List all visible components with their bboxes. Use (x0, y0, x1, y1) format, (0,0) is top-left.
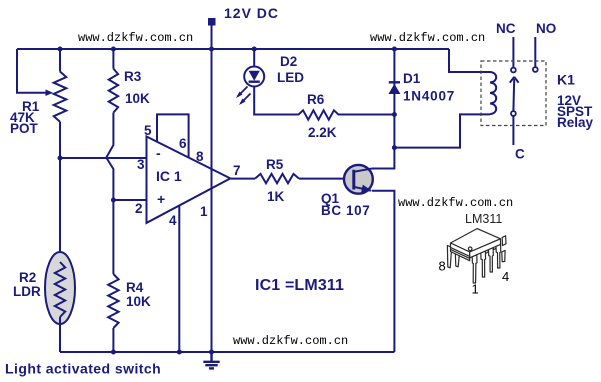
node dot D1-R6 (392, 112, 397, 117)
DIP pin1 index dot (468, 247, 472, 251)
wire pot wiper arrowhead (46, 89, 54, 96)
svg-text:R5: R5 (266, 157, 284, 172)
resistor R6 zigzag (298, 110, 339, 119)
svg-text:5: 5 (144, 123, 152, 138)
wire pot wiper arm (17, 49, 47, 93)
node dot collector-coil (392, 145, 397, 150)
resistor R5 zigzag (255, 174, 299, 183)
op-amp IC1 triangle (147, 137, 231, 223)
wire IC output pin7 (230, 178, 255, 180)
svg-text:R4: R4 (126, 280, 144, 295)
wire coil bottom step to collector node (394, 114, 490, 147)
svg-text:1K: 1K (267, 189, 285, 204)
svg-text:10K: 10K (126, 294, 151, 309)
svg-text:1: 1 (200, 204, 208, 219)
LED D2 circle (244, 67, 264, 87)
DIP left leg pin 8 (447, 246, 451, 268)
resistor R1 zigzag (54, 72, 67, 122)
node dot rail-LED (252, 47, 257, 52)
LDR R2 ellipse (45, 252, 75, 324)
svg-text:LED: LED (277, 70, 304, 85)
transistor Q1 base bar (352, 170, 355, 190)
relay armature arrow line (512, 79, 515, 111)
node dot pin4-rail (177, 350, 182, 355)
svg-text:R3: R3 (124, 69, 142, 84)
DIP package front face (470, 239, 501, 258)
svg-text:2.2K: 2.2K (308, 125, 337, 140)
relay armature pole circle (511, 111, 516, 116)
LED D2 emission arrow 2 (241, 94, 251, 104)
diode D1 triangle (388, 84, 400, 94)
relay NC contact wire (512, 37, 514, 67)
svg-text:R2: R2 (19, 270, 36, 285)
svg-text:www.dzkfw.com.cn: www.dzkfw.com.cn (233, 334, 348, 348)
transistor Q1 collector slant (354, 169, 372, 172)
svg-text:12V DC: 12V DC (224, 5, 279, 21)
wire pin4 to ground rail (178, 206, 180, 352)
node dot rail-R1 (58, 47, 63, 52)
svg-text:IC 1: IC 1 (156, 168, 182, 184)
DIP front leg 3 (489, 247, 494, 272)
wire R2 bottom to bottom rail (59, 317, 61, 352)
node dot R1-R2-pin3 (58, 156, 63, 161)
svg-text:IC1 =LM311: IC1 =LM311 (255, 277, 344, 294)
transistor Q1 emitter slant (354, 187, 371, 191)
DIP package left end face (451, 243, 470, 261)
DIP back right leg lower (502, 250, 505, 261)
relay coil curl dots (490, 81, 494, 105)
svg-text:3: 3 (137, 157, 145, 172)
wire +12V top rail (17, 48, 449, 50)
LED D2 triangle (249, 71, 260, 81)
wire node to R4 (112, 200, 114, 274)
svg-text:R6: R6 (307, 92, 325, 107)
wire R1 top to rail (59, 49, 61, 72)
node dot rail-D1 (392, 47, 397, 52)
node dot ground-rail (209, 350, 214, 355)
DIP package left face seam (451, 247, 470, 258)
svg-text:8: 8 (196, 149, 204, 164)
svg-text:POT: POT (10, 121, 39, 136)
DIP package body top face (451, 229, 501, 252)
resistor R4 zigzag (108, 274, 118, 328)
DIP front leg pin 1 (472, 255, 477, 283)
svg-text:C: C (515, 147, 525, 162)
wire 12V terminal to rail and down through IC to ground (211, 25, 213, 352)
wire Q1 collector to node (372, 148, 394, 169)
node dot rail-12V (209, 47, 214, 52)
node dot R4-rail (111, 350, 116, 355)
svg-text:Light activated switch: Light activated switch (5, 361, 161, 377)
wire R6 right to D1 branch (339, 114, 394, 116)
relay NO contact wire (534, 37, 536, 67)
svg-text:4: 4 (169, 213, 177, 228)
DIP back leg stub 2 (493, 240, 497, 250)
resistor R3 zigzag (109, 69, 118, 113)
svg-text:NC: NC (496, 21, 516, 36)
svg-text:D2: D2 (280, 54, 297, 69)
svg-text:www.dzkfw.com.cn: www.dzkfw.com.cn (398, 196, 513, 210)
wire R5 to Q1 base (299, 178, 353, 180)
relay K1 dashed enclosure (481, 61, 546, 126)
svg-text:www.dzkfw.com.cn: www.dzkfw.com.cn (78, 31, 193, 45)
svg-text:1: 1 (472, 282, 479, 297)
svg-text:BC 107: BC 107 (321, 203, 370, 218)
ground symbol (203, 352, 219, 368)
svg-text:10K: 10K (125, 91, 150, 106)
DIP back leg stub 3 (502, 236, 506, 246)
svg-text:8: 8 (439, 259, 446, 274)
wire pin2 input (113, 199, 146, 201)
svg-text:Relay: Relay (557, 115, 594, 130)
transistor Q1 circle (344, 165, 373, 194)
wire pin3 input (60, 157, 147, 159)
svg-text:6: 6 (179, 136, 187, 151)
DIP left leg 7 (455, 253, 459, 267)
svg-text:2: 2 (135, 201, 143, 216)
wire R3 top to rail (112, 49, 114, 69)
svg-text:+: + (157, 191, 165, 207)
svg-text:-: - (156, 145, 161, 161)
wire relay common to C terminal (512, 116, 514, 145)
wire D1 branch vertical (393, 49, 395, 148)
DIP front leg 2 (481, 251, 486, 277)
diode D1 cathode bar (389, 81, 400, 83)
svg-text:4: 4 (502, 269, 509, 284)
svg-text:D1: D1 (403, 71, 421, 86)
relay NC contact circle (511, 68, 516, 73)
wire LED cathode down and right to R6 (254, 87, 298, 115)
wire Q1 emitter to ground rail (372, 191, 394, 352)
svg-text:NO: NO (536, 21, 556, 36)
node dot R3-R4-pin2 (111, 198, 116, 203)
svg-text:LM311: LM311 (465, 212, 502, 226)
svg-text:7: 7 (233, 163, 241, 178)
wire R4 bottom to rail (112, 328, 114, 352)
LED D2 cathode bar (249, 80, 260, 82)
wire LED to rail (253, 49, 255, 67)
svg-text:www.dzkfw.com.cn: www.dzkfw.com.cn (370, 31, 485, 45)
node dot rail-R3 (111, 47, 116, 52)
12V DC terminal square (208, 18, 216, 26)
DIP front leg pin 4 (496, 244, 501, 268)
transistor Q1 emitter arrowhead (361, 185, 372, 193)
wire rail right step down to relay coil (449, 49, 490, 72)
svg-text:1N4007: 1N4007 (403, 88, 455, 103)
relay armature arrowhead (510, 77, 519, 83)
DIP back leg stub 1 (484, 244, 488, 254)
resistor R2 zigzag (55, 262, 65, 317)
wire R1 bottom to node (59, 122, 61, 262)
wire pin5 pin6 balance loop (157, 114, 189, 157)
relay K1 coil (490, 72, 496, 114)
relay NO contact circle (533, 67, 538, 72)
wire bottom ground rail (60, 351, 394, 353)
wire R3 bottom with hop over pin3 wire (106, 113, 113, 200)
svg-text:K1: K1 (557, 72, 575, 88)
svg-text:LDR: LDR (13, 284, 41, 299)
LED D2 emission arrow 1 (238, 87, 248, 97)
